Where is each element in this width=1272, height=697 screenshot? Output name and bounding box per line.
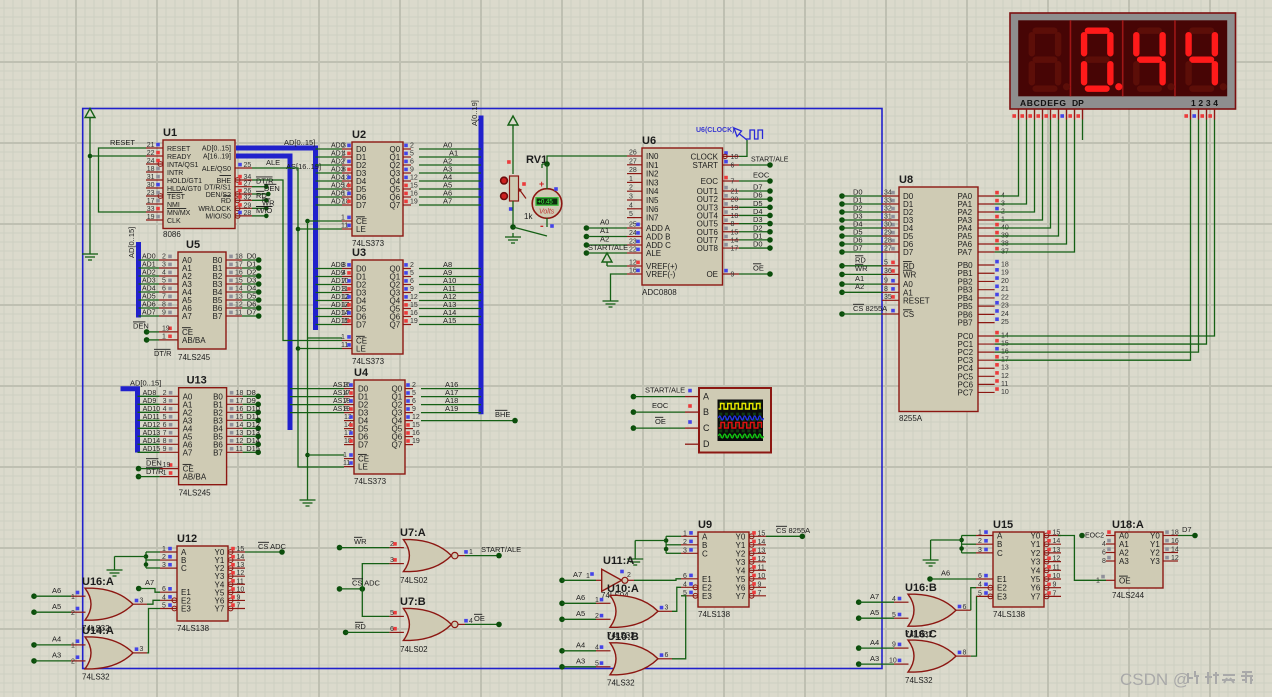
svg-text:U7:A: U7:A	[400, 527, 426, 539]
svg-text:1: 1	[343, 452, 347, 459]
svg-text:11: 11	[237, 578, 244, 585]
wire U16:B out to U15 E2	[971, 588, 976, 611]
svg-text:IN2: IN2	[646, 170, 659, 179]
svg-text:15: 15	[236, 414, 244, 421]
svg-text:AD[0..15]: AD[0..15]	[127, 227, 136, 258]
svg-text:2: 2	[978, 538, 982, 545]
svg-text:PA7: PA7	[958, 248, 973, 257]
svg-text:B7: B7	[213, 448, 223, 457]
bus A[16..19] from U1 to U4	[236, 156, 321, 430]
svg-text:A7: A7	[443, 197, 452, 206]
svg-text:17: 17	[147, 198, 155, 205]
svg-text:2: 2	[412, 382, 416, 389]
svg-text:A6: A6	[52, 586, 61, 595]
svg-text:START/ALE: START/ALE	[481, 545, 521, 554]
wire U6 ADD A	[584, 218, 627, 231]
svg-text:D7: D7	[358, 441, 369, 450]
svg-text:WR: WR	[903, 270, 917, 279]
svg-text:DT/R: DT/R	[146, 467, 164, 476]
nor-gate U7:B 74LS02	[389, 596, 473, 654]
svg-text:D7: D7	[1182, 525, 1192, 534]
svg-text:NMI: NMI	[167, 202, 180, 209]
svg-text:3: 3	[390, 557, 394, 564]
svg-text:12: 12	[629, 260, 637, 267]
svg-text:2: 2	[71, 659, 75, 666]
wire U16:A out to U12 E2	[147, 600, 160, 604]
watermark CSDN	[1120, 670, 1253, 689]
svg-text:VREF(-): VREF(-)	[646, 270, 676, 279]
svg-text:CS: CS	[903, 310, 914, 319]
svg-text:29: 29	[244, 202, 252, 209]
wire RV1 bottom to ground	[510, 201, 547, 236]
svg-text:6: 6	[410, 278, 414, 285]
sheet border	[83, 109, 882, 669]
svg-text:16: 16	[1171, 538, 1179, 545]
svg-text:1: 1	[683, 530, 687, 537]
svg-text:Y3: Y3	[1150, 557, 1160, 566]
svg-text:15: 15	[237, 546, 245, 553]
wire U13 A inputs from AD bus	[138, 396, 160, 452]
svg-text:3: 3	[665, 605, 669, 612]
wire A6 to U15 E1	[927, 569, 976, 582]
svg-text:4: 4	[344, 390, 348, 397]
svg-text:Y4: Y4	[1031, 566, 1041, 575]
svg-text:5: 5	[412, 390, 416, 397]
svg-text:2: 2	[71, 610, 75, 617]
wire U6 START to START/ALE	[739, 157, 789, 168]
svg-text:3: 3	[344, 382, 348, 389]
svg-text:M/IO/S0: M/IO/S0	[205, 214, 231, 221]
bus AD[0..15] from U1 to U2/U3	[236, 138, 316, 330]
svg-text:AS[16..19]: AS[16..19]	[286, 162, 321, 171]
op IC U1 8086 CPU	[146, 127, 252, 239]
svg-text:3: 3	[342, 262, 346, 269]
svg-text:A6: A6	[576, 593, 585, 602]
svg-text:B: B	[703, 407, 709, 417]
wire U8 A2	[839, 282, 882, 295]
svg-text:11: 11	[343, 460, 350, 467]
svg-text:E1: E1	[997, 575, 1007, 584]
svg-text:21: 21	[1001, 286, 1009, 293]
svg-text:9: 9	[410, 167, 414, 174]
4-digit seven-segment display showing 0.44	[1010, 13, 1236, 109]
svg-text:4: 4	[163, 406, 167, 413]
svg-text:IN4: IN4	[646, 187, 659, 196]
svg-text:D7: D7	[356, 321, 367, 330]
svg-text:13: 13	[236, 430, 244, 437]
wire RV1 top	[512, 129, 514, 174]
ground for U12 ABC	[107, 566, 123, 576]
svg-text:A3: A3	[576, 657, 585, 666]
svg-text:21: 21	[731, 189, 739, 196]
svg-text:27: 27	[884, 246, 892, 253]
wire U4 D inputs from AS bus	[290, 389, 344, 413]
svg-text:D7: D7	[903, 248, 914, 257]
svg-text:2: 2	[410, 143, 414, 150]
svg-text:1k: 1k	[524, 212, 533, 221]
svg-text:23: 23	[1001, 303, 1009, 310]
wire U10:A out to U9 E2	[672, 587, 681, 611]
svg-text:U2: U2	[352, 129, 366, 141]
svg-text:+0.45: +0.45	[538, 200, 554, 206]
svg-text:6: 6	[1102, 550, 1106, 557]
svg-text:D: D	[703, 439, 710, 449]
svg-text:15: 15	[731, 229, 739, 236]
svg-text:15: 15	[410, 302, 418, 309]
svg-text:12: 12	[1001, 373, 1009, 380]
svg-text:4: 4	[342, 270, 346, 277]
svg-text:8: 8	[342, 286, 346, 293]
svg-text:RESET: RESET	[110, 138, 135, 147]
svg-text:20: 20	[731, 197, 739, 204]
wire U4 outputs A16..A19 to A bus	[421, 380, 481, 413]
display segment pins	[1012, 109, 1214, 140]
svg-text:11: 11	[1001, 381, 1008, 388]
svg-text:26: 26	[629, 150, 637, 157]
svg-text:CS ADC: CS ADC	[352, 579, 381, 588]
svg-text:11: 11	[758, 564, 765, 571]
svg-text:WR: WR	[855, 264, 868, 273]
svg-text:4: 4	[629, 202, 633, 209]
wire A4 to U10:B.4	[559, 641, 596, 654]
svg-text:AB/BA: AB/BA	[183, 473, 207, 482]
not-gate U11:A 74LS04	[586, 555, 634, 600]
op IC U2 74LS373 latch	[331, 129, 418, 248]
svg-text:12: 12	[412, 414, 420, 421]
wire DT/R to U13 AB/BA	[136, 467, 164, 479]
wire A4 to U14:A.1	[31, 635, 71, 648]
resistor RV1 1k potentiometer	[501, 154, 548, 221]
svg-text:2: 2	[629, 185, 633, 192]
svg-text:RD: RD	[355, 622, 366, 631]
svg-text:13: 13	[758, 547, 766, 554]
svg-text:START/ALE: START/ALE	[588, 243, 628, 252]
ground under VCC rail	[82, 250, 98, 260]
wire A7 to U12 E1	[136, 578, 160, 592]
svg-text:C: C	[181, 564, 187, 573]
svg-text:4: 4	[1102, 541, 1106, 548]
wire A4 to U16:C.9	[856, 638, 894, 651]
svg-text:3: 3	[163, 398, 167, 405]
svg-text:13: 13	[1053, 547, 1061, 554]
svg-text:74LS02: 74LS02	[400, 645, 428, 654]
svg-text:Q7: Q7	[392, 441, 403, 450]
svg-text:14: 14	[1053, 538, 1061, 545]
svg-text:12: 12	[1053, 556, 1061, 563]
svg-text:U8: U8	[899, 174, 913, 186]
svg-text:1: 1	[629, 176, 633, 183]
svg-text:IN3: IN3	[646, 178, 659, 187]
svg-text:20: 20	[1001, 278, 1009, 285]
wire U3 outputs A8..A15 to A bus	[419, 260, 481, 325]
svg-text:6: 6	[978, 573, 982, 580]
wire WR stub	[252, 199, 275, 211]
wire CS ADC to U7:A.3 / U7:B.5	[337, 564, 390, 617]
svg-text:A5: A5	[576, 609, 585, 618]
svg-text:7: 7	[1053, 590, 1057, 597]
svg-text:D0: D0	[753, 240, 763, 249]
svg-text:U9: U9	[698, 519, 712, 531]
svg-text:AD[0..15]: AD[0..15]	[202, 146, 231, 153]
svg-text:15: 15	[758, 530, 766, 537]
wire A7 to U11:A	[559, 570, 596, 583]
svg-text:IN5: IN5	[646, 196, 659, 205]
svg-text:A5: A5	[52, 602, 61, 611]
wire U12 Y0 CS ADC	[245, 542, 287, 555]
or-gate U16:A 74LS32	[71, 576, 147, 633]
svg-text:3: 3	[978, 547, 982, 554]
svg-text:4: 4	[683, 581, 687, 588]
ground under RV1	[505, 233, 521, 243]
svg-text:EOC: EOC	[753, 171, 770, 180]
svg-text:18: 18	[1171, 530, 1179, 537]
svg-text:IN0: IN0	[646, 152, 659, 161]
svg-text:7: 7	[342, 278, 346, 285]
svg-text:33: 33	[147, 206, 155, 213]
svg-text:2: 2	[162, 554, 166, 561]
svg-text:19: 19	[162, 325, 170, 332]
svg-text:A: A	[997, 532, 1003, 541]
voltmeter showing +0.45 Volts	[522, 164, 562, 232]
svg-text:12: 12	[410, 175, 418, 182]
svg-text:19: 19	[410, 199, 418, 206]
svg-text:U4: U4	[354, 367, 369, 379]
svg-text:D7: D7	[247, 308, 257, 317]
wire DT/R stub	[252, 177, 274, 189]
ground for latch OE	[300, 496, 316, 506]
wire RD stub	[252, 191, 269, 203]
svg-text:14: 14	[235, 286, 243, 293]
svg-text:11: 11	[341, 342, 348, 349]
power terminal VCC top-left	[85, 109, 95, 122]
wire U8 A1	[839, 274, 882, 287]
scope screen waveforms	[719, 401, 764, 438]
svg-text:24: 24	[147, 158, 155, 165]
svg-text:10: 10	[1053, 573, 1061, 580]
svg-text:31: 31	[147, 174, 155, 181]
svg-text:U14:A: U14:A	[82, 625, 114, 637]
svg-text:U1: U1	[163, 127, 177, 139]
wire U12 ABC tie to ground	[115, 552, 161, 568]
svg-text:INTA/QS1: INTA/QS1	[167, 162, 198, 169]
wire U7:B out OE	[465, 614, 502, 627]
svg-text:D7: D7	[356, 201, 367, 210]
wire READY (U1.22 to rail)	[90, 155, 146, 157]
wire DEN to U13 CE	[136, 458, 162, 471]
svg-text:10: 10	[237, 586, 245, 593]
svg-text:3: 3	[140, 646, 144, 653]
op IC U3 74LS373 latch	[331, 247, 418, 366]
svg-text:7: 7	[237, 602, 241, 609]
bus A[0..19] address bus right of latches	[470, 100, 481, 414]
svg-text:HOLD/GT1: HOLD/GT1	[167, 178, 202, 185]
svg-text:11: 11	[341, 223, 348, 230]
wire U3 D inputs from AD bus	[316, 269, 343, 325]
svg-text:1: 1	[162, 333, 166, 340]
svg-text:18: 18	[235, 254, 243, 261]
svg-text:OUT8: OUT8	[697, 244, 719, 253]
svg-text:4: 4	[342, 151, 346, 158]
svg-text:28: 28	[244, 210, 252, 217]
svg-text:U6: U6	[642, 135, 656, 147]
svg-text:1: 1	[978, 530, 982, 537]
svg-text:A5: A5	[870, 608, 879, 617]
svg-text:33: 33	[884, 198, 892, 205]
svg-text:74LS138: 74LS138	[993, 610, 1026, 619]
wire VCC rail left of U1	[88, 122, 93, 251]
svg-text:U6(CLOCK): U6(CLOCK)	[696, 127, 735, 134]
svg-text:A7: A7	[182, 312, 192, 321]
svg-text:2: 2	[683, 539, 687, 546]
wire U18 Y0 D7	[1178, 525, 1198, 538]
svg-text:4: 4	[162, 594, 166, 601]
power terminal VREF+	[602, 253, 627, 266]
svg-text:8: 8	[163, 438, 167, 445]
svg-text:10: 10	[758, 573, 766, 580]
svg-text:Q7: Q7	[390, 201, 401, 210]
svg-text:16: 16	[410, 310, 418, 317]
svg-text:OE: OE	[655, 417, 666, 426]
wire U16:C out to U15 E3	[971, 596, 977, 656]
svg-text:1: 1	[162, 546, 166, 553]
svg-text:BHE: BHE	[495, 410, 510, 419]
svg-text:9: 9	[162, 310, 166, 317]
svg-text:U5: U5	[186, 239, 200, 251]
svg-text:11: 11	[1053, 564, 1060, 571]
svg-text:READY: READY	[167, 154, 191, 161]
svg-text:1: 1	[71, 643, 75, 650]
svg-text:3: 3	[629, 194, 633, 201]
wire RD to U7:B.6	[343, 622, 390, 635]
op IC U18:A 74LS244 buffer	[1085, 519, 1179, 600]
svg-text:IN7: IN7	[646, 214, 659, 223]
wire BHE from U4	[421, 410, 518, 423]
svg-text:ALE: ALE	[266, 158, 280, 167]
svg-text:Q7: Q7	[390, 321, 401, 330]
svg-text:3: 3	[140, 598, 144, 605]
ground for U9 ABC	[627, 555, 643, 565]
svg-text:18: 18	[731, 213, 739, 220]
svg-text:EOC: EOC	[701, 177, 719, 186]
svg-text:8: 8	[731, 221, 735, 228]
wire START/ALE to scope A	[631, 386, 686, 400]
wire A3 to U14:A.2	[31, 651, 71, 664]
svg-text:U16:C: U16:C	[905, 628, 937, 640]
svg-text:1: 1	[341, 215, 345, 222]
svg-text:3: 3	[162, 262, 166, 269]
svg-text:17: 17	[731, 246, 739, 253]
wire VREF- to ground	[611, 274, 628, 297]
svg-text:5: 5	[162, 278, 166, 285]
svg-text:START: START	[693, 161, 719, 170]
svg-text:START/ALE: START/ALE	[645, 386, 685, 395]
wire U14:A out to U12 E3	[147, 609, 160, 653]
wire A5 to U10:A.2	[559, 609, 596, 622]
svg-text:CS 8255A: CS 8255A	[776, 526, 810, 535]
wire U6 OUT1..OUT8 data to D7..D0	[739, 183, 773, 251]
op IC U12 74LS138 decoder	[160, 533, 245, 633]
wire U2 D inputs from AD bus	[316, 149, 343, 205]
clock generator terminal U6(CLOCK)	[696, 127, 763, 156]
svg-text:CSDN @: CSDN @	[1120, 670, 1190, 689]
svg-text:LE: LE	[358, 463, 368, 472]
svg-text:A: A	[703, 392, 709, 402]
op IC U13 74LS245 transceiver	[143, 375, 261, 498]
svg-text:24: 24	[629, 230, 637, 237]
svg-text:E3: E3	[702, 592, 712, 601]
wire WR to U7:A.2	[337, 537, 390, 550]
svg-text:DP: DP	[1072, 98, 1084, 108]
svg-text:9: 9	[410, 286, 414, 293]
svg-text:B7: B7	[213, 312, 223, 321]
svg-text:14: 14	[236, 422, 244, 429]
op IC U4 74LS373 latch	[333, 367, 420, 486]
svg-text:U16:A: U16:A	[82, 576, 114, 588]
svg-text:1: 1	[71, 594, 75, 601]
ground for U15 ABC	[923, 556, 939, 566]
svg-text:AB/BA: AB/BA	[182, 336, 206, 345]
svg-text:5: 5	[410, 270, 414, 277]
svg-text:CS ADC: CS ADC	[258, 542, 287, 551]
svg-text:16: 16	[412, 430, 420, 437]
wire U8 CS from CS 8255A	[839, 304, 887, 317]
svg-text:U3: U3	[352, 247, 366, 259]
svg-text:13: 13	[237, 562, 245, 569]
svg-text:U18:A: U18:A	[1112, 519, 1144, 531]
svg-text:74LS138: 74LS138	[177, 624, 210, 633]
svg-text:1: 1	[341, 334, 345, 341]
svg-text:12: 12	[1171, 555, 1179, 562]
wire U2 outputs A0..A7 to A bus	[419, 141, 481, 206]
svg-text:ADC0808: ADC0808	[642, 288, 677, 297]
svg-text:RESET: RESET	[167, 146, 191, 153]
wire A3 to U16:C.10	[856, 654, 894, 667]
svg-text:D15: D15	[246, 444, 260, 453]
svg-text:DEN: DEN	[133, 322, 149, 331]
svg-text:9: 9	[731, 272, 735, 279]
svg-text:U7:B: U7:B	[400, 596, 426, 608]
op IC U5 74LS245 transceiver	[142, 239, 262, 362]
wire PC0..PC3 to display digit enables	[995, 120, 1215, 361]
wire U11:A out to U9 E1	[634, 579, 681, 581]
svg-text:74LS244: 74LS244	[1112, 591, 1145, 600]
svg-text:4: 4	[978, 582, 982, 589]
svg-text:A2: A2	[855, 282, 864, 291]
svg-text:18: 18	[236, 390, 244, 397]
svg-text:74LS245: 74LS245	[179, 489, 212, 498]
svg-text:ALE/QS0: ALE/QS0	[202, 166, 231, 173]
svg-text:6: 6	[390, 626, 394, 633]
svg-text:6: 6	[963, 604, 967, 611]
svg-text:30: 30	[147, 182, 155, 189]
svg-text:Y6: Y6	[1031, 584, 1041, 593]
wire U5 A inputs from AD bus	[139, 260, 160, 316]
svg-text:5: 5	[410, 151, 414, 158]
svg-text:74LS32: 74LS32	[905, 676, 933, 685]
svg-text:2: 2	[162, 254, 166, 261]
svg-text:2: 2	[390, 541, 394, 548]
svg-text:12: 12	[235, 302, 243, 309]
svg-text:9: 9	[884, 278, 888, 285]
svg-text:35: 35	[884, 294, 892, 301]
svg-text:27: 27	[629, 158, 637, 165]
svg-text:15: 15	[412, 422, 420, 429]
svg-text:START/ALE: START/ALE	[751, 157, 789, 164]
svg-text:28: 28	[629, 167, 637, 174]
svg-text:A4: A4	[52, 635, 61, 644]
svg-text:6: 6	[412, 398, 416, 405]
svg-text:74LS373: 74LS373	[354, 477, 387, 486]
